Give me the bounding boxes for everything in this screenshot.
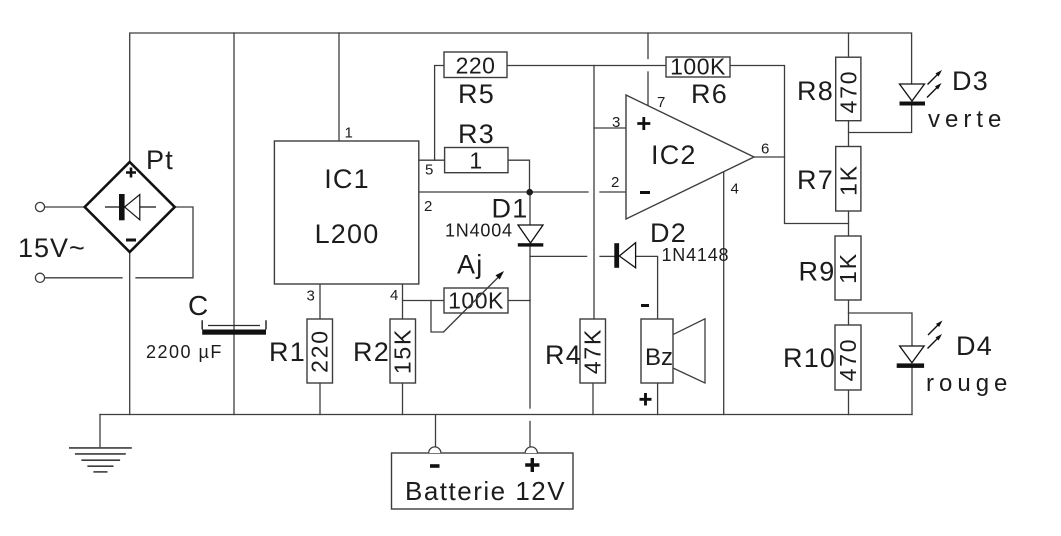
- svg-text:rouge: rouge: [926, 370, 1012, 397]
- wire bridge bottom vertical: [129, 252, 131, 415]
- LED D4 rouge: [897, 321, 1013, 398]
- svg-text:R2: R2: [353, 337, 390, 367]
- wire ground drop: [99, 415, 101, 447]
- wire IC2 pin7 lower: [647, 72, 649, 106]
- svg-text:2200 µF: 2200 µF: [146, 342, 223, 362]
- wire R4 bottom: [592, 383, 594, 415]
- svg-text:R5: R5: [458, 79, 495, 109]
- wire battery minus: [435, 415, 437, 448]
- svg-text:R1: R1: [269, 337, 306, 367]
- wire IC1 pin2 to node: [419, 191, 530, 193]
- wire AC input bottom part1: [45, 277, 123, 279]
- svg-text:100K: 100K: [448, 288, 504, 314]
- svg-text:IC2: IC2: [651, 140, 697, 170]
- wire IC1 pin5 to R3: [419, 159, 445, 161]
- svg-text:Aj: Aj: [457, 250, 483, 280]
- svg-text:D1: D1: [492, 194, 529, 224]
- capacitor C: [146, 290, 266, 362]
- svg-text:2: 2: [424, 198, 432, 215]
- svg-text:470: 470: [836, 70, 862, 114]
- wire D3 cathode branch: [849, 106, 912, 133]
- svg-text:R6: R6: [691, 79, 728, 109]
- svg-text:100K: 100K: [670, 54, 726, 80]
- wire IC2 pin2 right part: [600, 191, 626, 193]
- wire IC1 pin1: [338, 33, 340, 141]
- terminal AC top: [35, 202, 44, 211]
- wire R3 right leg down: [508, 160, 530, 192]
- wire capacitor branch lower: [233, 335, 235, 415]
- wire D4 anode branch: [849, 313, 913, 346]
- resistor R6: [666, 54, 730, 110]
- wire R8 bottom to R7: [848, 121, 850, 147]
- wire pot wiper hook: [431, 301, 444, 333]
- svg-text:3: 3: [612, 114, 620, 131]
- wire battery plus lower: [529, 422, 531, 448]
- svg-text:R8: R8: [797, 76, 834, 106]
- resistor R2: [353, 319, 416, 383]
- svg-text:IC1: IC1: [324, 164, 370, 194]
- wire capacitor branch upper: [233, 33, 235, 330]
- wire AC input bottom part2: [136, 207, 193, 278]
- wire D4 cathode down: [911, 368, 913, 415]
- wire R2 bottom: [402, 383, 404, 415]
- resistor R7: [797, 147, 862, 212]
- svg-text:R10: R10: [783, 343, 836, 373]
- svg-text:Bz: Bz: [645, 344, 673, 371]
- svg-text:1: 1: [345, 125, 353, 142]
- resistor R1: [269, 319, 333, 383]
- wire R5 left leg: [435, 66, 444, 161]
- junction dot node A: [526, 189, 533, 196]
- resistor R5: [444, 52, 507, 109]
- resistor R3: [445, 119, 508, 174]
- svg-text:R9: R9: [799, 257, 836, 287]
- resistor R8: [797, 57, 862, 120]
- svg-text:1N4004: 1N4004: [445, 221, 513, 241]
- svg-text:5: 5: [425, 162, 433, 179]
- terminal AC bottom: [35, 273, 44, 282]
- resistor R4: [545, 319, 606, 383]
- svg-text:1K: 1K: [836, 164, 862, 196]
- svg-text:15V~: 15V~: [18, 233, 86, 263]
- potentiometer Aj: [444, 250, 509, 333]
- diode D1 1N4004: [445, 194, 543, 247]
- svg-text:47K: 47K: [580, 328, 606, 374]
- wire battery plus upper: [529, 301, 531, 409]
- wire top rail with bridge+ and D3 drop: [130, 33, 912, 162]
- svg-text:Batterie 12V: Batterie 12V: [405, 476, 566, 506]
- wire IC2 pin3: [594, 127, 626, 129]
- svg-text:R7: R7: [797, 165, 834, 195]
- wire pot right: [508, 300, 530, 302]
- wire pot left: [403, 300, 445, 302]
- svg-text:L200: L200: [315, 219, 380, 249]
- svg-text:1K: 1K: [835, 252, 861, 284]
- resistor R9: [799, 236, 862, 300]
- bridge rectifier Pt: [85, 145, 175, 252]
- wire R9 bottom to R10: [848, 300, 850, 325]
- svg-text:R3: R3: [458, 119, 495, 149]
- svg-text:2: 2: [611, 174, 619, 191]
- svg-text:4: 4: [731, 181, 739, 198]
- diode D2 1N4148: [614, 218, 729, 268]
- svg-text:4: 4: [390, 287, 398, 304]
- wire bottom ground rail: [100, 414, 912, 416]
- svg-text:15K: 15K: [390, 328, 416, 374]
- wire R8 top: [848, 33, 850, 57]
- wire IC1 pin3 to R1: [319, 284, 321, 319]
- svg-text:220: 220: [307, 329, 333, 373]
- svg-text:220: 220: [456, 53, 496, 79]
- ground: [69, 448, 132, 472]
- svg-text:1N4148: 1N4148: [662, 245, 730, 265]
- wire R10 bottom: [848, 390, 850, 415]
- svg-text:1: 1: [469, 148, 482, 174]
- wire D2 left part: [530, 255, 587, 257]
- svg-text:7: 7: [657, 94, 665, 111]
- svg-text:verte: verte: [928, 106, 1006, 133]
- wire IC1 pin4 to R2: [402, 284, 404, 319]
- wire Bz bottom: [657, 383, 659, 415]
- svg-text:D3: D3: [952, 66, 989, 96]
- wire R7 bottom to R9: [848, 212, 850, 237]
- svg-text:3: 3: [307, 288, 315, 305]
- svg-text:C: C: [188, 290, 208, 321]
- wire node to D1 anode: [529, 192, 531, 225]
- svg-text:470: 470: [835, 338, 861, 382]
- wire IC2 pin7 upper: [647, 33, 649, 59]
- wire D2 anode to Bz: [636, 256, 658, 319]
- wire IC2 pin4 down: [723, 172, 725, 415]
- IC1 L200: [274, 125, 433, 305]
- resistor R10: [783, 325, 861, 390]
- wire D2 left part2: [600, 255, 614, 257]
- buzzer Bz: [640, 306, 706, 406]
- wire R6 right to output node: [730, 66, 849, 224]
- svg-text:6: 6: [761, 141, 769, 158]
- svg-text:D2: D2: [650, 218, 687, 248]
- LED D3 verte: [900, 66, 1007, 133]
- wire D1 cathode down: [529, 246, 531, 300]
- wire AC input top: [45, 206, 85, 208]
- battery Batterie 12V: [392, 447, 574, 509]
- wire R5/R4 vertical bus: [593, 66, 595, 320]
- svg-text:R4: R4: [545, 340, 582, 370]
- svg-text:D4: D4: [956, 331, 993, 361]
- svg-text:Pt: Pt: [146, 145, 174, 175]
- wire IC2 pin6 output: [754, 156, 785, 158]
- op-amp IC2: [611, 94, 769, 219]
- wire R5 right to R6 left: [507, 65, 666, 67]
- wire IC2 pin2 left part: [530, 191, 588, 193]
- wire R1 bottom: [319, 383, 321, 415]
